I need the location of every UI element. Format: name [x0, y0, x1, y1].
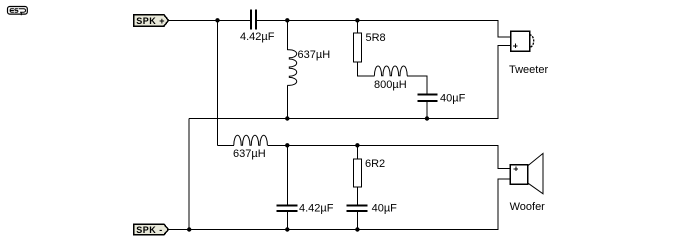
svg-text:Tweeter: Tweeter: [509, 64, 548, 76]
svg-text:SPK +: SPK +: [136, 16, 165, 26]
svg-text:800µH: 800µH: [374, 79, 407, 91]
svg-text:5R8: 5R8: [366, 32, 386, 44]
svg-text:40µF: 40µF: [440, 93, 466, 105]
svg-text:40µF: 40µF: [372, 203, 398, 215]
svg-text:637µH: 637µH: [233, 148, 266, 160]
svg-text:Woofer: Woofer: [510, 201, 546, 213]
svg-text:4.42µF: 4.42µF: [240, 31, 275, 43]
svg-text:4.42µF: 4.42µF: [299, 203, 334, 215]
svg-text:SPK -: SPK -: [136, 225, 163, 235]
svg-text:6R2: 6R2: [365, 158, 385, 170]
svg-text:637µH: 637µH: [298, 49, 331, 61]
